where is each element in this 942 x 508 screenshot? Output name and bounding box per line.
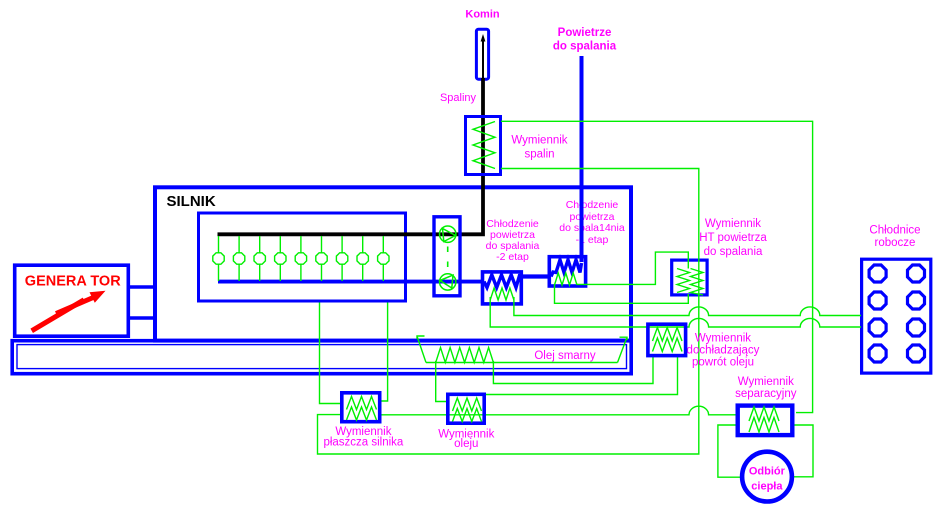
sump cooler symbol — [417, 336, 627, 363]
engine block inner box — [199, 213, 406, 301]
svg-text:Wymiennikdochładzającypowrót o: Wymiennikdochładzającypowrót oleju — [687, 332, 760, 368]
svg-text:Odbiórciepła: Odbiórciepła — [749, 465, 786, 492]
pump top circle — [440, 226, 456, 242]
stage1 blue coil — [551, 260, 582, 277]
stage1 cooler box — [549, 257, 585, 286]
pump bottom circle — [440, 274, 456, 290]
charge air blue pipe engine to stage2 — [218, 280, 484, 284]
svg-text:GENERA TOR: GENERA TOR — [25, 273, 121, 289]
jacket water exchanger box — [342, 393, 380, 422]
svg-text:Wymiennikpłaszcza silnika: Wymiennikpłaszcza silnika — [323, 426, 403, 449]
engine cylinders row — [213, 236, 389, 281]
combustion air blue pipe vertical — [580, 56, 584, 262]
wire exhaust-exchanger bottom long drop — [318, 169, 699, 455]
blue pipe stage2 to stage1 — [521, 274, 551, 278]
jacket water coils — [347, 397, 377, 421]
HT exchanger box — [672, 260, 707, 295]
base frame outer — [12, 341, 631, 374]
wire stage2 to radiator line 1 — [514, 297, 861, 316]
wire HT bottom to stage1 bottom — [555, 284, 689, 303]
wire sump right to aftercooler bottom — [493, 356, 653, 384]
svg-text:Chłodzeniepowietrzado spala14n: Chłodzeniepowietrzado spala14nia-1 etap — [559, 199, 625, 246]
HT coil column 2 — [691, 269, 704, 296]
svg-text:Wymiennikspalin: Wymiennikspalin — [511, 134, 567, 160]
svg-text:Powietrzedo spalania: Powietrzedo spalania — [553, 27, 617, 53]
stage2 green coil — [490, 288, 514, 300]
wire separator loop right — [793, 425, 813, 477]
chimney rectangle — [476, 29, 488, 79]
wire separator loop left — [718, 425, 741, 477]
svg-text:Spaliny: Spaliny — [440, 92, 477, 104]
exhaust heat exchanger box Wymiennik spalin — [466, 117, 501, 175]
wire exhaust-exchanger top to separator drop — [501, 121, 813, 412]
exhaust black pipe — [218, 78, 484, 234]
lightning bolt symbol — [32, 291, 106, 331]
engine room box SILNIK — [155, 187, 631, 340]
separator coils — [749, 407, 779, 432]
pump dashed link — [447, 247, 449, 268]
oil exchanger box — [448, 394, 484, 423]
pump box — [434, 217, 460, 296]
stage1 green coil — [555, 273, 578, 285]
svg-text:Wymiennikoleju: Wymiennikoleju — [438, 429, 494, 450]
svg-text:Komin: Komin — [465, 9, 500, 21]
heat consumer circle Odbior ciepla — [742, 452, 792, 502]
wire oil line jacket to separator — [381, 406, 738, 415]
exhaust pipe arrow tip in chimney — [481, 34, 486, 80]
stage2 blue coil — [484, 275, 523, 288]
svg-text:SILNIK: SILNIK — [167, 193, 216, 210]
coupling bar lower — [128, 316, 157, 320]
wire oil exchanger right to aftercooler bottom — [485, 356, 678, 395]
wire sump to oil exchanger — [436, 361, 447, 402]
stage2 cooler box — [483, 272, 522, 304]
oil exchanger coils — [453, 398, 482, 422]
zigzag coil in exhaust exchanger — [473, 122, 495, 169]
wire engine drain to jacket exchanger left — [320, 303, 342, 404]
coupling bar upper — [128, 285, 157, 289]
HT coil column 1 — [677, 269, 690, 293]
wire stage1 to HT top — [577, 252, 688, 284]
base frame inner — [17, 345, 627, 369]
radiator bank box with fans — [862, 259, 931, 373]
aftercooler oil return box — [648, 324, 686, 355]
svg-text:Chłodzeniepowietrzado spalania: Chłodzeniepowietrzado spalania-2 etap — [486, 218, 540, 263]
aftercooler coils — [653, 328, 683, 352]
separator exchanger box — [738, 406, 793, 436]
wire stage2 to radiator line 2 — [490, 297, 861, 327]
generator box — [15, 265, 129, 336]
svg-text:Olej smarny: Olej smarny — [534, 350, 596, 362]
wire engine drain to jacket exchanger right — [380, 303, 388, 402]
svg-text:Chłodnicerobocze: Chłodnicerobocze — [869, 225, 920, 250]
svg-text:WymiennikHT powietrzado spalan: WymiennikHT powietrzado spalania — [699, 218, 767, 258]
svg-text:Wymiennikseparacyjny: Wymiennikseparacyjny — [735, 376, 797, 400]
